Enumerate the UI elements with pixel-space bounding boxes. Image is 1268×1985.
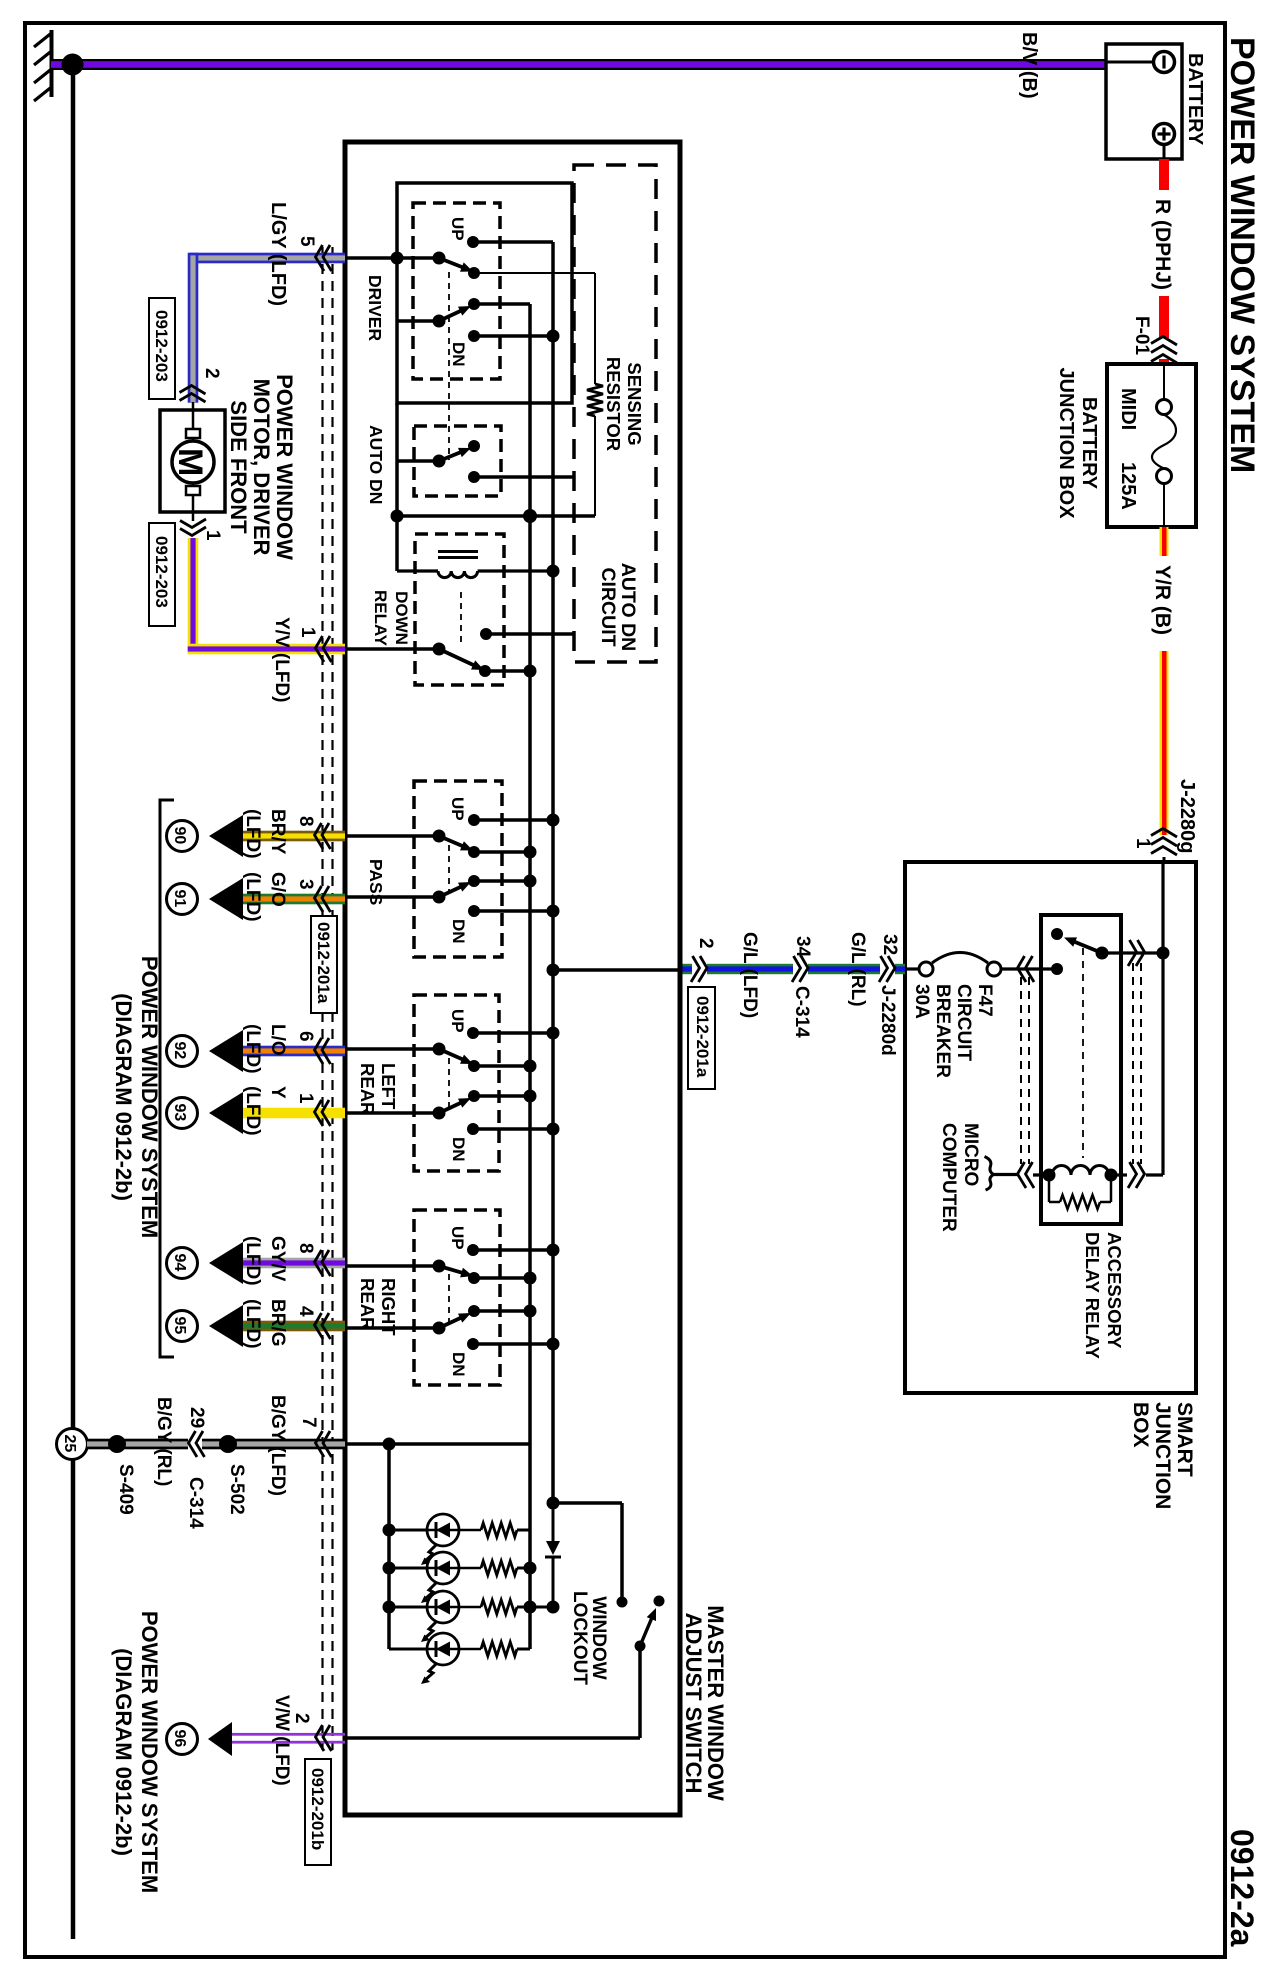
wire coil right to feed (1111, 953, 1163, 1175)
label S-409 (115, 1464, 136, 1515)
svg-text:96: 96 (171, 1730, 188, 1748)
right rear dn blade contact (468, 1305, 480, 1317)
svg-text:CIRCUIT: CIRCUIT (597, 567, 619, 646)
wire relay blade contact to bus B (485, 669, 530, 673)
connector dashed pass-through at master box edge (323, 247, 333, 1750)
connector C-314 on G/L (792, 956, 808, 982)
wire BR/Y (LFD) (243, 831, 345, 842)
connector circle 90 (167, 821, 198, 852)
node L/GY junction (391, 252, 404, 265)
label UP left rear (448, 1009, 467, 1033)
left rear dashed box (414, 995, 499, 1171)
wire rr up fixed to bus A (473, 1248, 553, 1252)
driver dn common (433, 315, 446, 328)
left rear dn blade (439, 1098, 471, 1113)
auto dn blade (439, 448, 471, 461)
wire loop around driver switch (397, 183, 572, 403)
svg-text:2: 2 (291, 1713, 312, 1724)
label AUTO DN CIRCUIT (597, 563, 639, 651)
label box 0912-201a left (311, 916, 337, 1013)
svg-text:34: 34 (792, 936, 813, 958)
label F-01 (1131, 316, 1152, 356)
svg-text:DN: DN (449, 1137, 468, 1162)
connector on Y/V at master box (316, 636, 332, 662)
wire G/O (LFD) (243, 894, 345, 905)
driver up fixed contact (467, 236, 479, 248)
connector on Y/V at motor (180, 512, 206, 536)
label DOWN RELAY (371, 590, 411, 647)
auto dn common (433, 455, 446, 468)
label pin 1 motor (202, 530, 223, 541)
wire to sensing resistor (594, 273, 596, 384)
node bus B LED row3 (524, 1601, 537, 1614)
label POWER WINDOW MOTOR DRIVER SIDE FRONT (226, 374, 297, 560)
connector F-01 (1151, 337, 1177, 364)
right rear dn common (433, 1322, 446, 1335)
svg-text:UP: UP (448, 217, 467, 241)
relay switch pivot (1096, 947, 1109, 960)
left rear up common (433, 1043, 446, 1056)
node down relay coil bus A (547, 565, 560, 578)
left rear dn common (433, 1107, 446, 1120)
connector chevrons Y (315, 1100, 331, 1126)
label J-2280g (1176, 779, 1198, 854)
svg-text:5: 5 (296, 236, 317, 247)
connector circle 94 (167, 1248, 198, 1279)
driver dn blade (439, 306, 471, 321)
wire into coil (1033, 1173, 1052, 1176)
down relay blade (439, 649, 484, 670)
svg-text:MOTOR, DRIVER: MOTOR, DRIVER (249, 379, 274, 556)
label G/L (LFD) (739, 932, 760, 1018)
svg-text:ADJUST SWITCH: ADJUST SWITCH (681, 1613, 706, 1794)
label box 0912-201b (305, 1759, 331, 1865)
window lockout open contact (654, 1596, 665, 1607)
label 34 C-314 (791, 936, 813, 1038)
label BR/Y (LFD) (242, 809, 288, 859)
svg-text:MICRO: MICRO (960, 1123, 981, 1186)
label Y/R (B) (1149, 556, 1175, 651)
wire driver dn fixed to bus A (474, 334, 553, 338)
label MASTER WINDOW ADJUST SWITCH (681, 1605, 728, 1801)
label pin 2 V/W (291, 1713, 312, 1724)
svg-text:7: 7 (298, 1417, 319, 1428)
wire BR/G (LFD) (243, 1321, 345, 1332)
connector C-314 on B/GY (188, 1431, 205, 1457)
wire auto dn lower contact to auto dn circuit (474, 475, 574, 479)
label V/W (LFD) (271, 1695, 292, 1786)
node LED left bus row2 (383, 1562, 396, 1575)
right rear dn fixed (467, 1338, 479, 1350)
power window motor driver side front (160, 402, 225, 512)
label L/GY (LFD) (267, 202, 289, 306)
wire G/O entry to pass dn common (344, 895, 439, 899)
svg-text:DELAY RELAY: DELAY RELAY (1082, 1232, 1103, 1359)
svg-text:BOX: BOX (1129, 1402, 1152, 1448)
node bus B lr up (524, 1060, 537, 1073)
down relay upper contact (480, 628, 492, 640)
left rear up blade contact (468, 1060, 480, 1072)
down relay blade contact (479, 665, 491, 677)
svg-text:J-2280g: J-2280g (1176, 779, 1198, 854)
svg-text:JUNCTION: JUNCTION (1151, 1402, 1174, 1509)
wire bus B (528, 304, 532, 1649)
label box 0912-201a right (688, 987, 715, 1089)
connector circle 25 (57, 1429, 88, 1460)
connector pass-through dashes left (1021, 977, 1029, 1164)
svg-text:29: 29 (186, 1407, 207, 1428)
title POWER WINDOW SYSTEM (1223, 37, 1261, 473)
down relay coil (397, 571, 553, 578)
svg-text:93: 93 (171, 1104, 188, 1122)
right rear up blade (439, 1266, 473, 1277)
svg-text:(DIAGRAM 0912-2b): (DIAGRAM 0912-2b) (111, 993, 136, 1201)
node bus A driver dn (547, 330, 560, 343)
wire lr up fixed to bus A (473, 1031, 553, 1035)
label B/V (B) (1018, 32, 1040, 99)
svg-text:(LFD): (LFD) (242, 809, 263, 859)
svg-text:BREAKER: BREAKER (932, 984, 953, 1078)
svg-text:DN: DN (449, 342, 468, 367)
label Y (LFD) (242, 1086, 288, 1136)
connector chevrons BR/Y (315, 823, 331, 849)
svg-text:8: 8 (295, 1243, 316, 1254)
LED 1 with resistor (389, 1514, 530, 1565)
battery (1106, 44, 1182, 159)
svg-text:RELAY: RELAY (371, 590, 390, 647)
svg-text:UP: UP (448, 797, 467, 821)
wire B/GY entry rail (344, 1442, 530, 1446)
label DRIVER (365, 275, 385, 341)
pass dn common (433, 891, 446, 904)
wire rr dn contact to bus B (474, 1309, 530, 1313)
svg-text:BATTERY: BATTERY (1184, 53, 1206, 146)
right rear up common (433, 1260, 446, 1273)
svg-text:WINDOW: WINDOW (588, 1596, 609, 1679)
label POWER WINDOW SYSTEM (DIAGRAM 0912-2b) lower (111, 1611, 162, 1893)
svg-text:POWER WINDOW SYSTEM: POWER WINDOW SYSTEM (137, 956, 162, 1238)
label pin 6 L/O (295, 1031, 316, 1042)
window lockout blade (640, 1608, 656, 1646)
down relay dashed box (415, 534, 504, 685)
driver up blade contact (468, 267, 480, 279)
svg-text:(LFD): (LFD) (242, 1024, 263, 1074)
wire R (DPHJ) red (1159, 159, 1169, 365)
svg-text:BR/G: BR/G (267, 1299, 288, 1347)
right rear dashed box (414, 1210, 500, 1385)
svg-text:SENSING: SENSING (624, 362, 645, 445)
auto dn lower contact (468, 471, 480, 483)
node ground junction (62, 54, 84, 76)
mechanical link left rear (448, 1058, 450, 1109)
connector chevrons on relay pivot wire (1128, 940, 1145, 966)
right rear dn blade (439, 1313, 471, 1328)
label DN pass (449, 919, 468, 944)
svg-text:G/L (RL): G/L (RL) (847, 932, 868, 1007)
label pin 1 Y/V (297, 627, 318, 638)
wire pass dn contact to bus B (474, 879, 530, 883)
label PASS (366, 859, 386, 905)
wire rr up contact to bus B (474, 1276, 530, 1280)
connector chevrons B/GY at master box (316, 1431, 332, 1457)
label pin 3 G/O (295, 879, 316, 890)
label 29 C-314 (185, 1407, 207, 1529)
wire G/L blue (680, 964, 905, 974)
connector pass-through dashes right (1133, 963, 1141, 1164)
svg-text:30A: 30A (911, 984, 932, 1019)
svg-text:(DIAGRAM 0912-2b): (DIAGRAM 0912-2b) (111, 1648, 136, 1856)
svg-text:92: 92 (171, 1042, 188, 1060)
svg-text:C-314: C-314 (185, 1477, 206, 1529)
svg-text:RESISTOR: RESISTOR (603, 357, 624, 451)
svg-text:S-502: S-502 (226, 1464, 247, 1515)
wire BR/G entry to rr dn common (344, 1326, 439, 1330)
svg-text:MIDI: MIDI (1117, 388, 1139, 430)
label SMART JUNCTION BOX (1129, 1402, 1196, 1509)
wire rr dn fixed to bus A (473, 1342, 553, 1346)
connector J-2280g (1151, 829, 1177, 856)
wire L/O entry to lr common (344, 1047, 439, 1051)
label pin 2 G/L (695, 938, 716, 949)
svg-text:32: 32 (879, 934, 900, 955)
label BATTERY (1184, 53, 1206, 146)
driver dn fixed contact (468, 330, 480, 342)
svg-text:POWER WINDOW: POWER WINDOW (272, 374, 297, 560)
wire lr dn fixed to bus A (473, 1127, 553, 1131)
LED 3 with resistor (389, 1591, 530, 1642)
svg-text:(LFD): (LFD) (242, 1086, 263, 1136)
svg-text:0912-201b: 0912-201b (308, 1768, 327, 1850)
driver up blade (439, 258, 473, 272)
label UP right rear (448, 1226, 467, 1250)
label S-502 (226, 1464, 247, 1515)
wire driver dn blade contact to bus B (474, 302, 530, 306)
label pin 8 BR/Y (295, 816, 316, 827)
micro computer symbol (985, 1157, 994, 1191)
svg-text:AUTO DN: AUTO DN (617, 563, 639, 651)
wire auto dn common (397, 459, 439, 463)
svg-text:CIRCUIT: CIRCUIT (953, 984, 974, 1061)
wire Y/V (188, 538, 345, 654)
wire L/GY entry to driver common (344, 256, 439, 260)
label L/O (LFD) (242, 1024, 288, 1074)
svg-text:125A: 125A (1117, 462, 1139, 510)
svg-text:B/V (B): B/V (B) (1018, 32, 1040, 99)
label BATTERY JUNCTION BOX (1055, 367, 1100, 519)
down relay pivot (433, 643, 446, 656)
mechanical link pass (448, 845, 450, 893)
svg-text:L/GY (LFD): L/GY (LFD) (267, 202, 289, 306)
left rear up fixed (467, 1027, 479, 1039)
connector chevrons G/O (315, 886, 331, 912)
svg-text:REAR: REAR (357, 1278, 378, 1330)
svg-text:LOCKOUT: LOCKOUT (569, 1591, 590, 1685)
svg-text:1: 1 (297, 627, 318, 638)
driver up common (433, 252, 446, 265)
pass dashed box (414, 781, 502, 957)
node bus B y516 (523, 509, 537, 523)
mechanical link right rear (448, 1274, 450, 1324)
wire pass up contact to bus B (474, 850, 530, 854)
svg-text:(LFD): (LFD) (242, 872, 263, 922)
pass up common (433, 830, 446, 843)
svg-text:R (DPHJ): R (DPHJ) (1151, 199, 1174, 290)
wire B/V (B) purple (51, 59, 1107, 70)
svg-text:DN: DN (449, 1352, 468, 1377)
relay switch blade (1064, 937, 1102, 953)
master window adjust switch box (345, 142, 680, 1815)
svg-text:1: 1 (1132, 838, 1153, 849)
svg-text:BATTERY: BATTERY (1078, 397, 1100, 490)
window lockout pivot (635, 1641, 646, 1652)
wire LED left bus (387, 1444, 391, 1649)
smart junction box (905, 862, 1196, 1393)
svg-text:UP: UP (448, 1009, 467, 1033)
relay switch upper contact (1051, 928, 1063, 940)
connector chevrons BR/G (315, 1313, 331, 1339)
node bus B LED row2 (524, 1562, 537, 1575)
connector chevrons on coil wire left (1018, 1162, 1035, 1188)
svg-text:4: 4 (295, 1306, 316, 1317)
wire driver up fixed to bus A (473, 240, 553, 244)
left rear dn fixed (467, 1123, 479, 1135)
svg-text:1: 1 (202, 530, 223, 541)
label MICRO COMPUTER (938, 1123, 981, 1232)
svg-text:95: 95 (171, 1317, 188, 1335)
svg-text:2: 2 (695, 938, 716, 949)
svg-text:(LFD): (LFD) (242, 1236, 263, 1286)
svg-text:REAR: REAR (357, 1063, 378, 1115)
wire relay pivot to feed (1102, 951, 1163, 954)
svg-text:0912-203: 0912-203 (152, 310, 171, 382)
wire Y (LFD) (243, 1108, 345, 1119)
node bus B relay (524, 665, 537, 678)
right rear up blade contact (468, 1272, 480, 1284)
battery junction box (1107, 364, 1196, 527)
svg-text:G/L (LFD): G/L (LFD) (739, 932, 760, 1018)
wire lockout pivot to V/W entry (344, 1646, 640, 1738)
svg-text:B/GY (LFD): B/GY (LFD) (267, 1395, 288, 1496)
svg-text:90: 90 (171, 827, 188, 845)
wire V/W (232, 1733, 345, 1744)
svg-text:91: 91 (171, 890, 188, 908)
svg-text:POWER WINDOW SYSTEM: POWER WINDOW SYSTEM (1223, 37, 1261, 473)
label AUTO DN (366, 425, 386, 504)
connector triangle 95 (209, 1305, 243, 1347)
node bus B rr dn (524, 1305, 537, 1318)
wire pass dn fixed to bus A (474, 909, 553, 913)
connector chevrons on coil wire right (1128, 1162, 1145, 1188)
svg-text:S-409: S-409 (115, 1464, 136, 1515)
svg-text:DOWN: DOWN (392, 591, 411, 645)
svg-text:F47: F47 (974, 984, 995, 1017)
node relay coil left (1043, 1169, 1056, 1182)
svg-text:25: 25 (61, 1435, 78, 1453)
wire L/O (LFD) (243, 1046, 345, 1057)
connector triangle 93 (209, 1092, 243, 1134)
svg-text:0912-201a: 0912-201a (314, 922, 333, 1004)
wire GY/V (LFD) (243, 1258, 345, 1269)
svg-text:6: 6 (295, 1031, 316, 1042)
diode to LED rail (530, 1503, 561, 1607)
svg-text:POWER WINDOW SYSTEM: POWER WINDOW SYSTEM (137, 1611, 162, 1893)
window lockout fixed contact (617, 1597, 628, 1608)
wire breaker to relay lower contact (1001, 967, 1054, 970)
LED 2 with resistor (389, 1552, 530, 1603)
pass dn fixed contact (468, 905, 480, 917)
left rear up blade (439, 1049, 473, 1064)
node bus A rr up (547, 1244, 560, 1257)
node bus A lr up (547, 1027, 560, 1040)
svg-text:8: 8 (295, 816, 316, 827)
svg-text:3: 3 (295, 879, 316, 890)
auto dn circuit box (574, 165, 656, 662)
wire Y/V entry to relay pivot (344, 647, 439, 651)
connector triangle 94 (209, 1242, 243, 1284)
node bus A rr dn (547, 1338, 560, 1351)
label UP pass (448, 797, 467, 821)
connector triangle 90 (209, 815, 243, 857)
wire sensing resistor to node (594, 416, 596, 516)
node splice S-409 (108, 1435, 126, 1453)
wire left column x397 (395, 403, 399, 571)
label GY/V (LFD) (242, 1236, 288, 1286)
wire down relay upper contact to auto dn circuit (486, 632, 574, 636)
wire to G/L exit (553, 968, 680, 972)
pass dn blade (439, 882, 471, 897)
connector chevrons on breaker wire (1018, 956, 1035, 982)
wire micro computer to relay coil (993, 1173, 1018, 1176)
label DN left rear (449, 1137, 468, 1162)
svg-text:(LFD): (LFD) (242, 1299, 263, 1349)
svg-text:G/O: G/O (267, 872, 288, 907)
pass up fixed contact (468, 814, 480, 826)
svg-text:B/GY (RL): B/GY (RL) (153, 1397, 174, 1486)
svg-text:J-2280d: J-2280d (877, 985, 898, 1056)
svg-text:V/W (LFD): V/W (LFD) (271, 1695, 292, 1786)
label POWER WINDOW SYSTEM (DIAGRAM 0912-2b) upper (111, 956, 162, 1238)
wire ground bus (71, 64, 76, 1939)
svg-text:0912-203: 0912-203 (152, 536, 171, 608)
node SJB feed junction (1157, 947, 1170, 960)
connector triangle 96 (208, 1722, 232, 1756)
node bus B pass up (524, 846, 537, 859)
node LED left bus row3 (383, 1601, 396, 1614)
wire B/GY (87, 1439, 345, 1450)
connector circle 95 (167, 1311, 198, 1342)
svg-text:Y/V (LFD): Y/V (LFD) (271, 617, 292, 703)
svg-text:DRIVER: DRIVER (365, 275, 385, 341)
node LED left bus junction (383, 1438, 396, 1451)
label WINDOW LOCKOUT (569, 1591, 609, 1685)
label pin 2 motor (201, 368, 222, 379)
label B/GY (LFD) (267, 1395, 288, 1496)
svg-text:BR/Y: BR/Y (267, 809, 288, 855)
svg-text:SIDE FRONT: SIDE FRONT (226, 400, 251, 534)
svg-text:SMART: SMART (1173, 1402, 1196, 1477)
node splice S-502 (219, 1435, 237, 1453)
connector chevrons V/W (316, 1725, 332, 1751)
node bus B lr dn (524, 1090, 537, 1103)
node bus A lr dn (547, 1123, 560, 1136)
label BR/G (LFD) (242, 1299, 288, 1349)
node bus A pass dn (547, 905, 560, 918)
connector circle 96 (167, 1724, 198, 1755)
label DN right rear (449, 1352, 468, 1377)
node x397 y516 (391, 510, 404, 523)
svg-text:JUNCTION BOX: JUNCTION BOX (1055, 367, 1077, 519)
pass dn blade contact (468, 875, 480, 887)
